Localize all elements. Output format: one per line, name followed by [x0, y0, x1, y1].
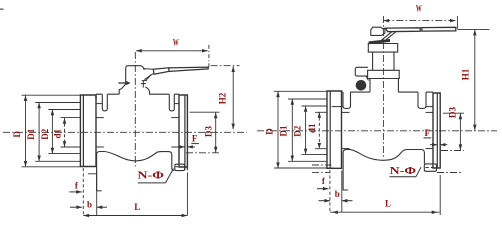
left valve body top edge left	[96, 94, 119, 111]
dimension b (left valve)	[70, 200, 107, 210]
dimension D1 (right valve)	[279, 99, 294, 161]
left valve gland tab	[118, 81, 130, 85]
right valve left flange	[327, 91, 342, 168]
dimension L (right valve)	[330, 175, 440, 215]
left valve right flange	[179, 95, 187, 167]
handle tip extension (right)	[456, 16, 458, 30]
svg-text:N-Φ: N-Φ	[137, 171, 164, 182]
dimension D (left valve)	[12, 95, 27, 167]
right valve body top edge left	[342, 92, 371, 108]
right valve gland bar	[369, 39, 390, 44]
svg-text:f: f	[322, 176, 326, 186]
svg-text:W: W	[416, 3, 422, 14]
dimension W (left valve)	[136, 37, 208, 52]
dimension D3 (left valve)	[186, 112, 220, 153]
extension lines left side (left valve)	[22, 95, 97, 174]
svg-text:b: b	[335, 189, 340, 199]
extension lines left side (right valve)	[274, 91, 333, 168]
left valve left flange	[80, 95, 96, 167]
svg-text:H1: H1	[460, 68, 470, 80]
left valve handle links	[144, 74, 153, 81]
svg-text:d1: d1	[307, 123, 317, 133]
left valve handle lever	[169, 67, 208, 71]
dimension H2	[217, 66, 235, 129]
dimension d1 (right valve)	[307, 112, 321, 149]
scan speck top-left	[0, 8, 4, 10]
left valve bolt lug box	[175, 164, 188, 170]
svg-text:F: F	[424, 128, 430, 138]
right valve packing flange	[368, 70, 400, 78]
right valve handle hub	[371, 27, 385, 35]
svg-text:D: D	[12, 131, 22, 138]
svg-text:L: L	[385, 198, 391, 208]
dimension L (left valve)	[83, 173, 187, 218]
right valve handle lever	[386, 27, 456, 31]
left valve bottom cap	[97, 152, 175, 192]
svg-text:D1: D1	[26, 128, 36, 139]
svg-text:b: b	[87, 200, 92, 210]
dimension D3 (right valve)	[437, 107, 464, 173]
svg-text:H2: H2	[217, 92, 227, 104]
right valve bottom cap	[343, 149, 424, 190]
right valve vertical centerline	[382, 16, 384, 159]
svg-text:W: W	[173, 37, 179, 48]
svg-text:N-Φ: N-Φ	[390, 166, 417, 177]
right valve stem column	[373, 52, 394, 70]
svg-text:D2: D2	[40, 128, 50, 139]
left valve vertical centerline	[134, 52, 136, 167]
right valve bolt lug box	[424, 164, 436, 171]
H2 top reference line	[211, 65, 240, 67]
left valve tube stubs	[96, 104, 179, 147]
left valve corner tick	[95, 96, 97, 98]
left valve handle hub	[144, 68, 169, 75]
dimension D2 (left valve)	[40, 110, 54, 154]
left valve stem details	[141, 81, 147, 88]
svg-text:D: D	[264, 128, 274, 135]
bolt callout N-PHI (left valve)	[137, 169, 173, 183]
dimension f (left valve)	[70, 180, 82, 193]
right valve body top edge right	[398, 92, 433, 108]
dimension D1 (left valve)	[26, 103, 41, 162]
svg-text:d1: d1	[53, 129, 63, 139]
left valve horizontal centerline	[3, 131, 247, 133]
flange face dashed extension (left valve)	[82, 168, 84, 216]
svg-text:D3: D3	[203, 126, 213, 137]
handle tip extension (left)	[208, 45, 210, 68]
right valve right flange	[433, 93, 440, 168]
right valve handle shank	[382, 32, 396, 40]
flange back extension (left valve)	[96, 171, 98, 216]
svg-text:D1: D1	[279, 125, 289, 136]
svg-text:D2: D2	[292, 125, 302, 136]
dimension D (right valve)	[264, 91, 279, 168]
dimension F (left valve)	[178, 134, 199, 149]
dimension f (right valve)	[312, 165, 332, 191]
svg-text:D3: D3	[448, 107, 458, 118]
right valve bonnet box	[368, 44, 397, 53]
dimension d1 (left valve)	[53, 118, 67, 147]
dimension D2 (right valve)	[292, 106, 307, 154]
dimension W (right valve)	[383, 3, 456, 22]
dimension b (right valve)	[319, 189, 353, 202]
H1 top reference line	[458, 28, 490, 30]
dimension F (right valve)	[424, 128, 448, 146]
right valve tube stubs	[332, 107, 434, 149]
flange back extension (right valve)	[341, 171, 343, 213]
svg-text:F: F	[192, 134, 198, 144]
right valve horizontal centerline	[257, 130, 497, 132]
svg-text:f: f	[75, 180, 79, 190]
right valve neck	[370, 79, 398, 93]
right valve grease fitting	[355, 67, 368, 90]
left valve body top edge right	[149, 94, 179, 111]
svg-text:L: L	[134, 202, 140, 212]
dimension H1	[460, 30, 476, 131]
flange face dashed extension (right valve)	[329, 170, 331, 212]
left valve bonnet	[119, 66, 149, 95]
bolt callout N-PHI (right valve)	[390, 166, 422, 177]
